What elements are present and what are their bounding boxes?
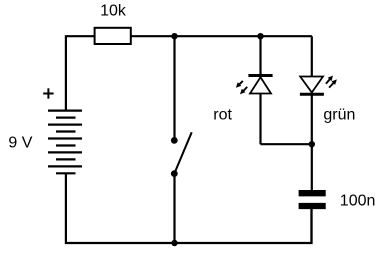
node: junction top rail / red LED branch — [257, 33, 263, 39]
wire: top rail from left corner to resistor — [66, 36, 94, 110]
svg-text:rot: rot — [213, 106, 232, 123]
LED D1 rot emission arrow 1 — [236, 81, 243, 88]
switch S1 lower contact — [171, 170, 178, 177]
wire: connecting red branch to green branch — [261, 143, 313, 145]
wire: switch lower lead — [173, 174, 175, 243]
svg-text:100n: 100n — [340, 193, 376, 210]
resistor R1 10k — [95, 28, 131, 44]
node: junction LED branches / capacitor branch — [309, 141, 315, 147]
LED D2 gruen cathode bar — [300, 93, 324, 96]
node: junction top rail / switch branch — [171, 33, 177, 39]
LED D1 rot cathode bar — [248, 74, 272, 77]
wire: switch upper lead — [173, 36, 175, 140]
battery BT1 cell plates — [48, 111, 82, 174]
LED D2 gruen emission arrow 2 — [329, 79, 337, 87]
wire: battery negative to bottom rail — [66, 173, 175, 243]
svg-text:10k: 10k — [100, 3, 127, 20]
switch S1 upper contact — [171, 137, 178, 144]
capacitor C1 top plate — [299, 190, 326, 196]
battery BT1 9V plus sign — [43, 88, 53, 98]
LED D1 rot triangle (anode, pointing up) — [250, 77, 271, 93]
svg-text:9 V: 9 V — [8, 135, 32, 152]
node: junction bottom rail / switch branch — [171, 240, 177, 246]
LED D2 gruen emission arrow 1 — [326, 76, 333, 84]
wire: bottom rail right part — [175, 209, 312, 243]
svg-text:grün: grün — [323, 107, 355, 124]
wire: green LED branch vertical — [311, 36, 313, 190]
wire: red LED branch vertical — [259, 36, 261, 144]
wire: capacitor bottom lead — [310, 209, 312, 243]
capacitor C1 bottom plate — [299, 203, 326, 209]
wire: top rail from resistor to right corner — [131, 35, 312, 37]
switch S1 blade (open) — [174, 132, 191, 173]
LED D1 rot emission arrow 2 — [240, 87, 247, 94]
LED D2 gruen triangle (anode, pointing down) — [300, 77, 323, 93]
